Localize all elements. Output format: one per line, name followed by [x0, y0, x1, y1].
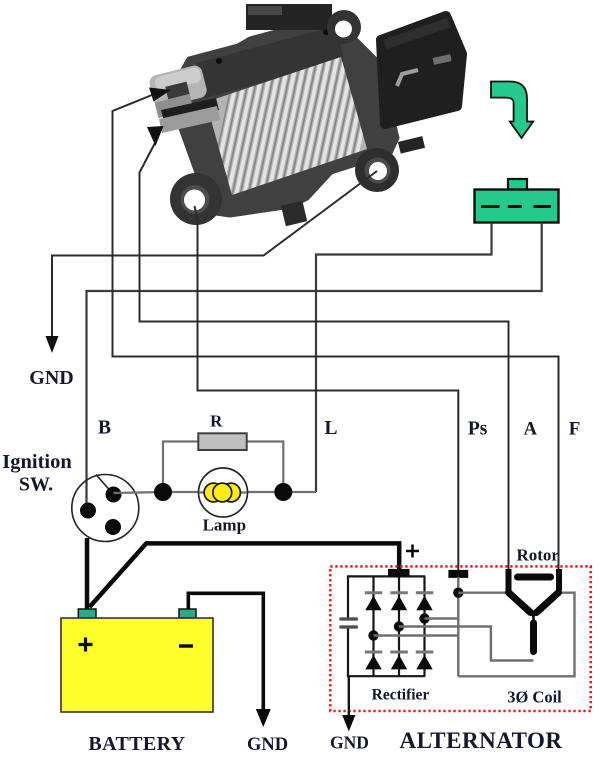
ground wire alternator: [348, 676, 350, 719]
svg-text:GND: GND: [29, 367, 73, 389]
wire: stator bottom loop: [458, 593, 574, 677]
ground arrow battery: [256, 709, 271, 727]
diode column 1: [365, 576, 383, 676]
wire: phase bus 1: [374, 634, 459, 636]
svg-text:Ps: Ps: [468, 419, 488, 440]
wire: battery + to ignition switch (thick): [85, 538, 90, 610]
rectifier bottom bus: [347, 675, 425, 677]
svg-text:Ignition: Ignition: [2, 451, 72, 473]
bottom-center mounting ear: [355, 148, 399, 192]
right connector block: [381, 16, 462, 124]
wire: lamp branch: [163, 491, 316, 493]
svg-text:Rectifier: Rectifier: [372, 687, 430, 704]
wire: Ps terminal pointer: [195, 206, 459, 570]
wire: battery + to alternator + (thick): [90, 543, 400, 607]
svg-text:Rotor: Rotor: [516, 546, 559, 565]
svg-text:GND: GND: [330, 733, 369, 753]
wire: resistor loop: [163, 442, 198, 493]
svg-text:R: R: [210, 411, 223, 430]
svg-text:Lamp: Lamp: [203, 516, 246, 535]
wire: A terminal pointer: [140, 143, 509, 578]
coil junction: [531, 613, 537, 624]
ground arrow alternator: [342, 715, 355, 732]
svg-text:ALTERNATOR: ALTERNATOR: [399, 728, 562, 753]
svg-text:A: A: [524, 420, 538, 440]
diode column 2: [390, 576, 408, 676]
wire: Ps to coil left leg: [458, 592, 507, 594]
svg-text:BATTERY: BATTERY: [88, 733, 185, 755]
wire: battery - to ground: [188, 593, 263, 712]
wire: connector right pin to B column: [87, 223, 542, 513]
wire: F terminal pointer: [113, 95, 559, 578]
rotor winding: [509, 569, 560, 591]
lamp L1: [199, 468, 248, 517]
arrowhead F at tab: [149, 88, 171, 102]
battery BT1: [61, 609, 213, 712]
ignition switch SW1: [72, 475, 139, 542]
wire: Ps node into stator: [457, 577, 459, 676]
heatsink fins: [206, 45, 380, 205]
bottom small foot: [281, 201, 307, 227]
wire: left bus down to capacitor: [347, 576, 349, 618]
junction node left: [154, 483, 172, 501]
svg-text:F: F: [569, 419, 581, 440]
Ps terminal blob: [448, 570, 468, 578]
regulator body: [170, 4, 397, 215]
node label + at alternator: [406, 545, 419, 558]
bottom-left mounting ear: [170, 173, 222, 225]
resistor R: [198, 433, 246, 450]
svg-text:L: L: [324, 418, 337, 439]
voltage regulator module photo: [148, 4, 462, 226]
diode column 3: [416, 576, 434, 676]
rectifier top bus: [347, 575, 425, 577]
left terminal tab: [148, 64, 220, 133]
wire: connector left pin to L column: [316, 223, 492, 493]
svg-text:GND: GND: [247, 735, 288, 755]
junction Ps: [453, 588, 463, 598]
alternator dashed boundary: [330, 566, 590, 711]
rectifier + terminal blob: [388, 569, 410, 577]
svg-text:SW.: SW.: [19, 474, 53, 496]
green curved arrow: [491, 82, 533, 139]
wire: GND pointer to regulator case: [52, 171, 377, 337]
wire: phase bus 3: [425, 617, 459, 619]
arrowhead A at tab strip: [147, 126, 164, 146]
junction node right: [274, 483, 292, 501]
wire: phase bus 2: [399, 627, 533, 661]
capacitor C1: [339, 617, 357, 620]
svg-text:3Ø Coil: 3Ø Coil: [507, 688, 562, 707]
connector plug symbol: [475, 179, 559, 223]
top-right mounting ear: [327, 10, 361, 44]
stator coil legs: [509, 593, 559, 652]
ground arrow GND left: [46, 336, 59, 353]
svg-text:B: B: [98, 418, 111, 439]
wire: switch to lamp node: [114, 492, 164, 493]
